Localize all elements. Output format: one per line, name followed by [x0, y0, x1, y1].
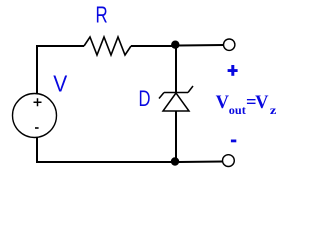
zener diode D: [159, 86, 193, 111]
wire left vertical bottom: [36, 138, 38, 164]
wire diode branch bottom: [175, 111, 177, 162]
svg-text:V: V: [53, 71, 68, 97]
node junction top: [171, 41, 179, 49]
voltage source V1: [13, 94, 57, 138]
terminal + output: [224, 39, 235, 50]
resistor R: [84, 37, 131, 55]
svg-text:z: z: [270, 103, 277, 117]
label + polarity: [228, 65, 238, 76]
label Vout=Vz: [216, 93, 278, 117]
label - polarity: [231, 140, 236, 143]
wire bottom-left horizontal: [36, 161, 173, 163]
wire resistor to top node: [131, 45, 173, 47]
wire left vertical top: [36, 45, 38, 94]
wire bottom node to output terminal: [179, 161, 223, 164]
svg-text:V: V: [255, 93, 269, 113]
terminal - output: [223, 155, 235, 167]
svg-text:out: out: [229, 103, 246, 117]
wire top node to output terminal: [179, 44, 224, 47]
wire diode branch top: [175, 46, 177, 93]
svg-text:R: R: [96, 2, 108, 28]
svg-text:D: D: [139, 86, 151, 111]
node junction bottom: [171, 157, 179, 165]
svg-text:V: V: [216, 93, 230, 113]
wire top-left horizontal segment: [36, 45, 84, 47]
